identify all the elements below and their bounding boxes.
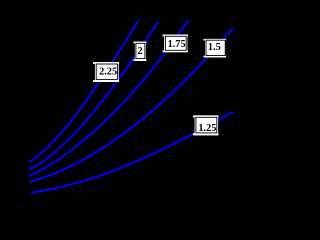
curve gamma=1.75 xyxy=(29,20,188,176)
svg-text:1.5: 1.5 xyxy=(208,42,221,53)
label 1.5 xyxy=(204,39,227,58)
label 2 xyxy=(133,42,146,61)
label 1.75 xyxy=(163,35,188,53)
label 1.25 xyxy=(193,115,219,135)
label 2.25 xyxy=(93,62,119,82)
curve gamma=1.5 xyxy=(29,28,233,182)
curve gamma=1.25 xyxy=(31,112,233,193)
curve gamma=2 xyxy=(29,21,159,170)
svg-text:2.25: 2.25 xyxy=(99,67,117,78)
svg-text:2: 2 xyxy=(138,46,143,57)
svg-text:1.75: 1.75 xyxy=(168,39,186,50)
curve gamma=2.25 xyxy=(29,21,138,163)
svg-text:1.25: 1.25 xyxy=(198,123,216,134)
